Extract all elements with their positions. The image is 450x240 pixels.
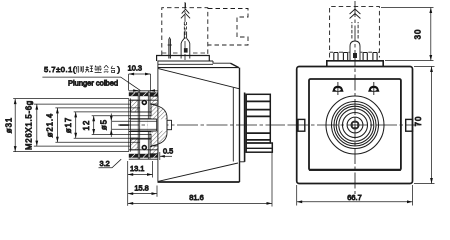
flange dark band top [129, 92, 158, 96]
dim 10.3 [128, 64, 151, 91]
svg-text:5.7±0.1(: 5.7±0.1( [44, 65, 76, 74]
mid zone hatch bottom [131, 138, 139, 150]
svg-text:3.2: 3.2 [100, 159, 110, 168]
housing top bevel [231, 63, 239, 67]
right plug step to body [240, 161, 245, 163]
housing top step [213, 61, 231, 63]
CJK glyphs 衔铁装合后 drawn [76, 65, 115, 72]
front view right tab [406, 119, 413, 131]
plunger pin stub [120, 124, 130, 126]
flange plate top edge [129, 90, 158, 92]
front view centerline vertical [354, 1, 356, 194]
right plug bottom lip [246, 143, 272, 152]
side connector base plate [157, 56, 210, 62]
svg-text:70: 70 [414, 116, 423, 127]
centerline main horizontal [118, 124, 285, 126]
svg-text:M26X1.5-6g: M26X1.5-6g [25, 100, 34, 150]
front view left tab [298, 119, 305, 131]
side connector chevron [181, 9, 190, 18]
dim 66.7 [297, 185, 413, 206]
side connector centerline [184, 2, 186, 60]
dim 0.5 [160, 147, 173, 161]
dim 70 [414, 67, 435, 184]
right column hatch bottom [150, 146, 158, 154]
front view centerline horizontal [288, 124, 421, 126]
svg-text:ø21.4: ø21.4 [46, 113, 55, 137]
dim 5.7 with leader [42, 65, 155, 92]
dim Ø31 [5, 99, 129, 152]
dim Ø5 [99, 114, 156, 137]
housing bottom diagonal [158, 163, 238, 181]
right column hatch top [150, 96, 158, 104]
svg-text:10.3: 10.3 [128, 64, 142, 73]
pole piece [167, 120, 172, 129]
flange dark band bottom [129, 154, 158, 158]
tube right pair [147, 91, 149, 159]
svg-text:15.8: 15.8 [134, 184, 148, 193]
front screw left [332, 82, 343, 95]
tube top lines [129, 99, 158, 101]
front view inner square thick bottom [309, 169, 401, 171]
front connector dome [350, 41, 360, 61]
svg-text:Plunger colbed: Plunger colbed [68, 78, 118, 87]
tube left face pair [128, 98, 130, 151]
front view circles [326, 96, 384, 154]
nose bulge top hatched [152, 104, 168, 125]
nose inner steps [131, 111, 152, 113]
dim Ø17 [64, 112, 152, 138]
svg-text:81.6: 81.6 [189, 193, 203, 202]
nose bore white [148, 119, 167, 130]
svg-text:): ) [118, 65, 121, 74]
front connector chevron [350, 9, 361, 19]
flange column strip top [150, 104, 152, 116]
side connector phantom box [162, 8, 208, 55]
right plug base plate [244, 93, 246, 162]
dim 30 [381, 8, 434, 61]
dim 81.6 [128, 153, 272, 207]
front connector base [327, 61, 383, 67]
front screw right [368, 82, 379, 95]
surface finish 3.2 [99, 159, 122, 168]
housing right edge [239, 68, 241, 182]
side connector phantom box bottom [162, 52, 208, 54]
svg-text:ø17: ø17 [64, 117, 73, 133]
svg-text:13.1: 13.1 [130, 164, 144, 173]
mid zone hatch top [131, 100, 139, 112]
side mating plug phantom [208, 9, 248, 46]
o-ring top [141, 99, 147, 105]
housing front face right edge [232, 88, 234, 162]
dim 12 [82, 116, 152, 135]
dim 13.1 [128, 161, 153, 206]
housing top diagonal [158, 68, 240, 88]
housing bottom edge [158, 181, 240, 183]
right plug ribs [246, 101, 270, 139]
front connector dashed shaft [352, 22, 358, 39]
side connector pin [169, 39, 171, 59]
front connector phantom box [330, 7, 380, 58]
flange column strip bottom [150, 135, 152, 147]
dim M26X1.5-6g [25, 100, 131, 150]
svg-text:ø5: ø5 [99, 119, 108, 130]
nose bulge bottom hatched [152, 125, 168, 146]
front connector pins [334, 53, 338, 61]
svg-text:12: 12 [82, 119, 91, 130]
front view outer square [297, 67, 413, 184]
svg-text:0.5: 0.5 [163, 147, 173, 156]
front phantom box bottom dashes [330, 51, 380, 53]
o-ring bottom [141, 145, 147, 151]
side connector bell [184, 32, 186, 39]
dim Ø21.4 [46, 108, 140, 142]
side connector dashed shaft [184, 22, 186, 30]
flange plate bottom edge [129, 158, 158, 160]
right plug body [246, 94, 270, 143]
front view inner square [309, 79, 401, 170]
svg-text:66.7: 66.7 [347, 193, 361, 202]
housing front top edge [158, 67, 239, 69]
tube mid pair [137, 91, 139, 159]
bore step lines [129, 118, 157, 120]
housing body left edge [157, 61, 159, 182]
svg-text:ø31: ø31 [5, 117, 14, 133]
nose bulge outline [152, 104, 168, 146]
dim 15.8 [128, 184, 157, 197]
housing top face bottom line [158, 63, 214, 65]
housing top back edge [158, 60, 214, 62]
svg-text:30: 30 [414, 29, 423, 40]
